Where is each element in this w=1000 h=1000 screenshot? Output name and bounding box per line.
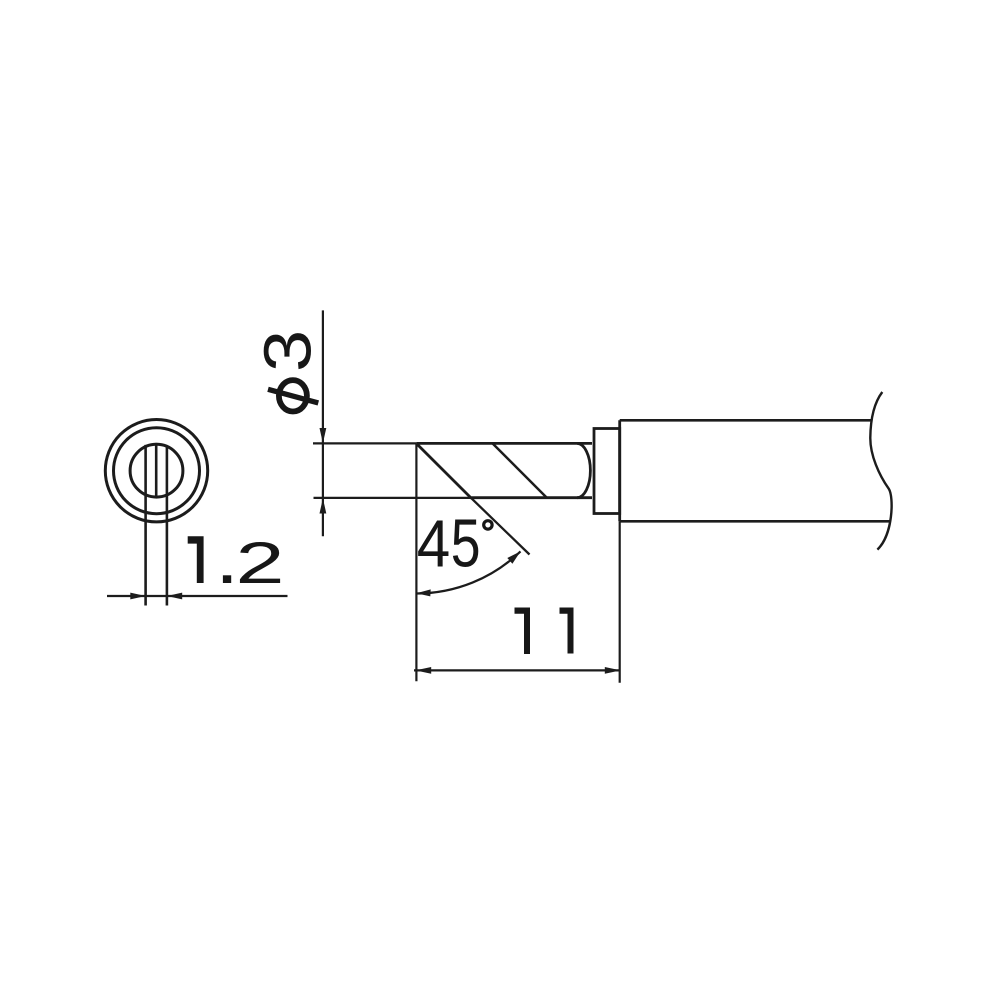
svg-text:3: 3	[251, 330, 326, 372]
phi3 top extension line	[313, 442, 416, 444]
phi3 arrow down	[320, 428, 327, 443]
11 right extension line	[619, 521, 621, 682]
barrel top edge	[620, 419, 871, 422]
barrel left edge	[618, 420, 621, 521]
arrow 11 right	[605, 667, 621, 674]
arc arrow bottom-left	[416, 589, 430, 596]
arc arrow top-right	[507, 551, 520, 563]
phi3 dimension line	[322, 310, 324, 536]
11 left extension line	[415, 443, 417, 681]
front view middle circle (sleeve inner)	[114, 428, 200, 514]
slot left edge line / extension line	[144, 445, 147, 606]
arrow 1.2 right	[167, 593, 182, 600]
tip hatch diagonal	[493, 443, 547, 497]
label phi symbol (diameter)	[268, 380, 318, 411]
phi3 bottom extension line	[314, 497, 471, 499]
45 degree construction diagonal	[471, 498, 530, 555]
label 1.2 digit 1	[188, 536, 204, 583]
slot right edge line / extension line	[166, 446, 169, 605]
svg-text:2: 2	[236, 530, 285, 595]
dimension line 1.2	[107, 595, 288, 597]
tip ground-face end arc	[577, 443, 590, 497]
label 11 first digit	[515, 608, 531, 655]
45 degree arc with arrows	[416, 551, 520, 593]
11 dimension line	[414, 669, 621, 671]
svg-text:5: 5	[451, 505, 481, 581]
label 11 second digit	[560, 608, 574, 654]
barrel bottom edge	[620, 520, 890, 523]
collar	[594, 429, 620, 514]
label 1.2 period	[223, 575, 231, 583]
phi3 arrow up	[320, 498, 327, 513]
arrow 11 left	[415, 667, 431, 674]
label degree symbol	[484, 521, 492, 529]
break line squiggle	[870, 392, 891, 550]
slot center line	[155, 443, 158, 499]
front view inner circle (tip face)	[130, 444, 183, 497]
front view outer circle (sleeve outer)	[105, 420, 207, 522]
tip outline (knife edge side view)	[416, 443, 592, 497]
svg-text:4: 4	[417, 507, 450, 582]
arrow 1.2 left	[130, 593, 145, 600]
